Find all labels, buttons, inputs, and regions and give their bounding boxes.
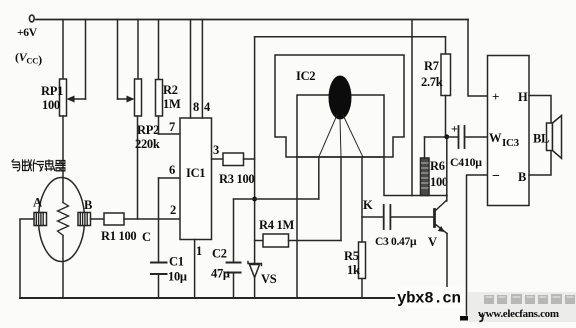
- wire pin6 to node C drop: [159, 178, 181, 263]
- svg-text:IC1: IC1: [186, 166, 205, 180]
- wire: left edge of feedback loop (vertical): [254, 37, 256, 263]
- svg-text:C4: C4: [450, 155, 464, 169]
- svg-text:C3 0.47μ: C3 0.47μ: [375, 236, 417, 248]
- wire IC2 right leg drop to K: [361, 157, 363, 242]
- wire C4 node down to collector node: [446, 137, 448, 196]
- svg-text:BL: BL: [533, 132, 549, 146]
- svg-text:6: 6: [169, 163, 175, 177]
- wire: top supply rail: [36, 19, 468, 21]
- wire electrode B to R1: [91, 218, 105, 220]
- music chip IC2 outline: [275, 55, 404, 157]
- wire RP2 bottom to node C line: [137, 116, 139, 219]
- resistor R4: [255, 218, 341, 247]
- svg-text:10μ: 10μ: [168, 270, 187, 284]
- svg-text:C2: C2: [212, 247, 227, 261]
- wire: ground rail: [20, 297, 447, 299]
- capacitor C2: [211, 199, 241, 298]
- svg-text:IC3: IC3: [502, 137, 520, 149]
- speaker BL: [533, 116, 562, 159]
- sensor heater zigzag: [58, 203, 69, 236]
- svg-text:V: V: [428, 235, 437, 249]
- wire sensor bottom to ground rail: [62, 236, 64, 299]
- resistor R7: [421, 37, 451, 137]
- svg-text:1M: 1M: [163, 97, 181, 111]
- svg-text:B: B: [518, 170, 526, 184]
- svg-text:RP1: RP1: [41, 84, 63, 98]
- svg-text:7: 7: [169, 120, 175, 134]
- wire R2 bottom to pin7: [159, 116, 181, 134]
- svg-text:R1 100: R1 100: [101, 229, 136, 243]
- svg-text:−: −: [492, 169, 500, 184]
- wire: C2 / IC2 left leg net: [234, 198, 319, 200]
- svg-text:100: 100: [42, 98, 60, 112]
- IC2 chip blob: [329, 76, 352, 120]
- gas sensor label (CJK pseudo-glyphs): [12, 160, 65, 172]
- wire IC3 minus to ground symbol: [467, 175, 488, 315]
- wire power feed to collector node: [411, 20, 413, 196]
- wire electrode A to left and down: [20, 219, 34, 298]
- svg-text:47μ: 47μ: [211, 267, 230, 281]
- potentiometer RP2: [118, 20, 160, 152]
- ground: [460, 316, 476, 321]
- resistor R1: [101, 213, 136, 243]
- potentiometer RP1: [41, 20, 86, 117]
- svg-text:IC2: IC2: [296, 69, 315, 83]
- wire K to C3: [362, 216, 384, 218]
- svg-text:C: C: [142, 230, 151, 244]
- resistor R2: [156, 20, 181, 117]
- pin 1: [195, 240, 202, 299]
- electrode A: [33, 196, 47, 226]
- wire rail corner to IC3 plus: [468, 20, 488, 97]
- pin 4: [202, 20, 211, 119]
- wire IC2 right-bottom tab drop: [384, 157, 447, 196]
- svg-text:ybx8.cn: ybx8.cn: [397, 290, 461, 308]
- op-amp/timer IC1: [180, 118, 212, 240]
- svg-text:RP2: RP2: [137, 123, 159, 137]
- svg-text:R7: R7: [424, 59, 439, 73]
- svg-text:W: W: [489, 131, 502, 145]
- svg-text:+: +: [451, 122, 458, 136]
- pin 8: [191, 20, 200, 119]
- svg-text:4: 4: [204, 100, 211, 114]
- svg-text:1k: 1k: [347, 263, 360, 277]
- svg-text:K: K: [363, 198, 373, 212]
- capacitor C3: [375, 205, 434, 248]
- gas sensor envelope: [39, 178, 85, 262]
- watermark ybx8.cn: [395, 287, 463, 308]
- resistor R6: [421, 137, 448, 196]
- svg-text:B: B: [84, 198, 92, 212]
- svg-text:www.elecfans.com: www.elecfans.com: [478, 308, 559, 320]
- svg-text:R2: R2: [163, 83, 178, 97]
- svg-text:1: 1: [196, 244, 202, 258]
- electrode B: [78, 198, 92, 226]
- wire H to speaker: [529, 96, 551, 124]
- svg-text:+: +: [492, 89, 499, 104]
- svg-text:R3 100: R3 100: [219, 172, 254, 186]
- zener diode VS: [248, 262, 277, 299]
- svg-text:+6V: +6V: [17, 27, 38, 39]
- svg-text:220k: 220k: [135, 137, 160, 151]
- wire: loop top edge: [255, 36, 446, 38]
- svg-text:8: 8: [193, 100, 199, 114]
- wire IC2 left leg drop: [318, 157, 320, 199]
- transistor V: [428, 196, 447, 299]
- capacitor C4: [444, 122, 487, 170]
- svg-text:(VCC): (VCC): [15, 50, 42, 67]
- wire IC2 middle leg drop: [340, 157, 342, 241]
- svg-text:R4 1M: R4 1M: [259, 218, 294, 232]
- svg-text:VS: VS: [261, 272, 277, 286]
- IC2 legs: [319, 115, 363, 157]
- wire RP1 bottom to sensor: [62, 116, 64, 203]
- svg-text:R5: R5: [344, 249, 359, 263]
- svg-text:100: 100: [430, 175, 448, 189]
- node junction dot: [252, 197, 257, 202]
- amplifier IC3: [488, 56, 530, 206]
- watermark elecfans: [468, 292, 576, 322]
- resistor R5: [344, 242, 366, 298]
- capacitor C1: [151, 255, 187, 299]
- wire R1 to IC1 pin 2: [124, 218, 180, 220]
- svg-text:2: 2: [170, 203, 176, 217]
- resistor R3: [219, 153, 255, 186]
- wire IC2 ground leg: [296, 157, 298, 298]
- svg-text:R6: R6: [430, 159, 445, 173]
- svg-text:10μ: 10μ: [464, 155, 482, 169]
- pin 3: [212, 143, 224, 159]
- power terminal +6V: [15, 15, 42, 66]
- wire B to speaker: [529, 151, 551, 176]
- svg-text:2.7k: 2.7k: [421, 75, 443, 89]
- svg-text:A: A: [33, 196, 42, 210]
- IC2 inner board rect: [297, 95, 384, 157]
- svg-text:H: H: [518, 90, 528, 104]
- svg-text:C1: C1: [169, 255, 184, 269]
- svg-text:3: 3: [213, 143, 219, 157]
